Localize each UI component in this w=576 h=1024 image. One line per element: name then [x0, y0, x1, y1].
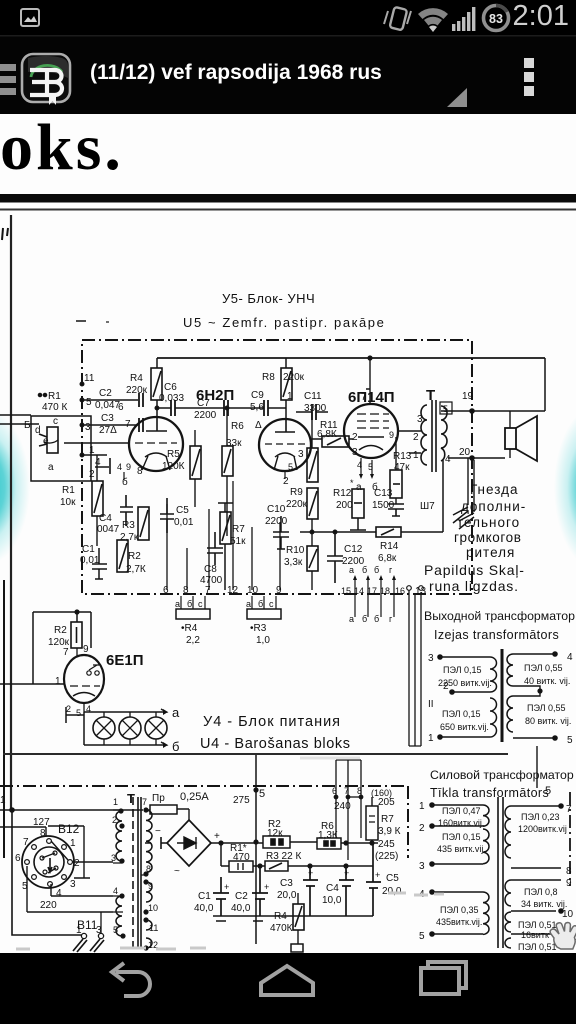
svg-text:1: 1	[113, 797, 118, 807]
svg-text:0047: 0047	[97, 524, 120, 535]
svg-text:б: б	[258, 599, 263, 609]
svg-text:2250 витк.vij.: 2250 витк.vij.	[438, 678, 492, 688]
svg-text:d: d	[35, 425, 41, 436]
svg-text:R9: R9	[290, 487, 303, 498]
svg-text:1: 1	[55, 676, 61, 687]
svg-text:2200: 2200	[194, 410, 217, 421]
svg-text:б: б	[374, 565, 379, 575]
svg-text:e: e	[43, 436, 49, 447]
svg-text:8: 8	[146, 864, 151, 874]
svg-text:435 витк.vij.: 435 витк.vij.	[437, 844, 486, 854]
svg-text:c: c	[53, 416, 58, 427]
svg-text:R7: R7	[381, 814, 394, 825]
svg-text:+: +	[264, 882, 269, 892]
svg-text:40,0: 40,0	[194, 903, 214, 914]
svg-text:С2: С2	[235, 891, 248, 902]
svg-text:3: 3	[111, 853, 116, 863]
svg-text:а: а	[175, 599, 180, 609]
svg-text:б: б	[122, 476, 128, 488]
svg-text:4: 4	[113, 886, 118, 896]
svg-text:27Δ: 27Δ	[99, 425, 117, 436]
svg-text:160витк.vij.: 160витк.vij.	[438, 818, 484, 828]
svg-text:C2: C2	[99, 388, 112, 399]
svg-text:6: 6	[163, 585, 169, 596]
svg-text:+: +	[308, 868, 313, 878]
svg-text:9: 9	[566, 878, 572, 889]
svg-text:3: 3	[85, 422, 91, 433]
svg-text:Δ: Δ	[255, 420, 262, 431]
svg-text:с: с	[269, 599, 274, 609]
svg-text:R12: R12	[333, 488, 352, 499]
svg-text:275: 275	[233, 795, 250, 806]
svg-text:10к: 10к	[60, 497, 76, 508]
svg-text:5: 5	[419, 931, 425, 942]
svg-text:1200витк.vij: 1200витк.vij	[518, 824, 567, 834]
svg-text:R3: R3	[122, 520, 135, 531]
svg-text:R2: R2	[128, 551, 141, 562]
svg-text:б: б	[187, 599, 192, 609]
svg-text:18: 18	[380, 586, 390, 596]
svg-text:R6: R6	[231, 421, 244, 432]
svg-text:с: с	[198, 599, 203, 609]
svg-text:4: 4	[117, 462, 122, 472]
svg-text:С4: С4	[99, 513, 112, 524]
svg-text:г: г	[389, 565, 393, 575]
svg-text:U4 - Barošanas bloks: U4 - Barošanas bloks	[200, 736, 351, 752]
svg-text:650 витк.vij.: 650 витк.vij.	[440, 722, 489, 732]
svg-text:R5: R5	[167, 449, 180, 460]
svg-text:R10: R10	[286, 545, 305, 556]
svg-text:+: +	[224, 882, 229, 892]
svg-text:runa ligzdas.: runa ligzdas.	[429, 578, 519, 594]
svg-text:*: *	[350, 478, 354, 488]
svg-text:5: 5	[259, 788, 265, 800]
svg-text:ПЭЛ 0,55: ПЭЛ 0,55	[527, 703, 566, 713]
svg-text:тельного: тельного	[457, 515, 520, 530]
svg-text:ПЭЛ 0,15: ПЭЛ 0,15	[442, 709, 481, 719]
svg-text:16витк: 16витк	[521, 930, 549, 940]
svg-text:U5 ~ Zemfr. pastipr. pакāpe: U5 ~ Zemfr. pastipr. pакāpe	[183, 315, 385, 330]
svg-text:8: 8	[183, 585, 189, 596]
svg-text:245: 245	[378, 839, 395, 850]
svg-text:220: 220	[40, 900, 57, 911]
svg-text:1: 1	[76, 925, 82, 936]
svg-text:Ш7: Ш7	[420, 501, 435, 512]
svg-text:7: 7	[125, 419, 131, 430]
svg-text:5: 5	[288, 462, 293, 472]
svg-text:Papildus Skaļ-: Papildus Skaļ-	[424, 562, 525, 578]
svg-text:а: а	[356, 482, 362, 493]
svg-text:б: б	[374, 614, 379, 624]
svg-text:С10: С10	[267, 504, 286, 515]
svg-text:9: 9	[83, 644, 89, 655]
svg-text:2: 2	[283, 476, 289, 487]
svg-text:20,0: 20,0	[277, 890, 297, 901]
svg-text:R8: R8	[262, 372, 275, 383]
svg-text:R14: R14	[380, 541, 399, 552]
svg-text:2: 2	[89, 469, 95, 480]
svg-text:ПЭЛ 0,51: ПЭЛ 0,51	[518, 942, 557, 952]
svg-text:11: 11	[149, 923, 158, 933]
svg-text:б: б	[362, 565, 367, 575]
svg-text:120К: 120К	[162, 461, 185, 472]
svg-text:(160): (160)	[371, 788, 392, 798]
svg-text:R4: R4	[130, 373, 143, 384]
svg-text:C3: C3	[101, 413, 114, 424]
svg-text:б: б	[362, 614, 367, 624]
svg-text:7: 7	[63, 647, 69, 658]
svg-text:0,01: 0,01	[174, 517, 194, 528]
svg-text:3: 3	[428, 653, 434, 664]
svg-text:5: 5	[545, 785, 551, 797]
svg-text:Т: Т	[426, 387, 435, 404]
svg-text:220к: 220к	[283, 372, 305, 383]
svg-text:80 витк. vij.: 80 витк. vij.	[525, 716, 571, 726]
svg-text:3: 3	[419, 861, 425, 872]
svg-text:10: 10	[148, 903, 158, 913]
svg-text:14: 14	[354, 586, 364, 596]
svg-text:1: 1	[70, 838, 76, 849]
svg-text:ПЭЛ 0,35: ПЭЛ 0,35	[440, 905, 479, 915]
svg-text:У4 - Блок питания: У4 - Блок питания	[203, 714, 341, 730]
svg-text:1: 1	[428, 733, 434, 744]
svg-text:0,25А: 0,25А	[180, 791, 209, 803]
svg-text:12: 12	[227, 585, 239, 596]
svg-text:1: 1	[0, 795, 6, 806]
svg-text:С12: С12	[344, 544, 363, 555]
svg-text:4: 4	[56, 888, 62, 899]
svg-text:40,0: 40,0	[231, 903, 251, 914]
svg-text:2: 2	[74, 858, 80, 869]
svg-text:8: 8	[137, 466, 143, 477]
svg-text:7: 7	[23, 837, 29, 848]
svg-text:а: а	[246, 599, 251, 609]
svg-text:R4: R4	[274, 911, 287, 922]
svg-text:Пр: Пр	[152, 793, 165, 804]
svg-text:−: −	[155, 826, 161, 837]
svg-text:3: 3	[298, 449, 304, 460]
svg-text:1: 1	[413, 450, 419, 461]
svg-text:ПЭЛ 0,15: ПЭЛ 0,15	[442, 832, 481, 842]
svg-text:С8: С8	[204, 564, 217, 575]
svg-text:Силовой трансформатор: Силовой трансформатор	[430, 768, 574, 782]
svg-text:20: 20	[459, 447, 471, 458]
svg-text:205: 205	[378, 797, 395, 808]
svg-text:15: 15	[341, 586, 351, 596]
svg-text:40 витк. vij.: 40 витк. vij.	[524, 676, 570, 686]
svg-text:2: 2	[66, 704, 71, 714]
svg-text:12к: 12к	[267, 828, 283, 839]
svg-text:С7: С7	[197, 398, 210, 409]
svg-text:470 К: 470 К	[42, 402, 67, 413]
svg-text:a: a	[48, 462, 54, 473]
svg-text:С13: С13	[374, 488, 393, 499]
svg-text:У5- Блок- УНЧ: У5- Блок- УНЧ	[222, 291, 315, 306]
svg-text:а: а	[172, 705, 180, 720]
svg-text:B12: B12	[58, 822, 80, 836]
svg-text:С11: С11	[304, 391, 322, 402]
svg-text:0,047: 0,047	[95, 400, 120, 411]
svg-text:5: 5	[443, 404, 448, 414]
svg-text:4700: 4700	[200, 575, 223, 586]
svg-text:Izejas transformātors: Izejas transformātors	[434, 628, 559, 642]
svg-text:Tīkla transformātors: Tīkla transformātors	[430, 786, 549, 800]
svg-text:17: 17	[367, 586, 377, 596]
svg-text:ПЭЛ 0,51: ПЭЛ 0,51	[518, 920, 557, 930]
svg-text:9: 9	[126, 462, 131, 472]
svg-text:С6: С6	[164, 382, 177, 393]
svg-text:R1: R1	[48, 391, 61, 402]
svg-text:ПЭЛ 0,23: ПЭЛ 0,23	[521, 812, 560, 822]
svg-text:дополни-: дополни-	[461, 499, 526, 514]
svg-text:ПЭЛ 0,47: ПЭЛ 0,47	[442, 806, 481, 816]
svg-text:6: 6	[118, 402, 124, 413]
svg-text:19: 19	[462, 391, 474, 402]
svg-text:127: 127	[33, 817, 50, 828]
svg-text:2,7к: 2,7к	[120, 532, 139, 543]
svg-text:16: 16	[395, 586, 405, 596]
svg-text:10,0: 10,0	[322, 895, 342, 906]
svg-text:7: 7	[361, 392, 367, 403]
svg-text:2200: 2200	[265, 516, 288, 527]
svg-text:5: 5	[86, 397, 92, 408]
svg-text:7: 7	[566, 804, 572, 815]
svg-text:2: 2	[352, 432, 358, 443]
svg-text:~: ~	[174, 866, 180, 877]
svg-text:Гнезда: Гнезда	[470, 482, 519, 497]
svg-text:1: 1	[287, 391, 293, 402]
svg-text:83: 83	[489, 12, 503, 26]
svg-text:г: г	[389, 614, 393, 624]
svg-text:10: 10	[247, 585, 259, 596]
svg-text:•R3: •R3	[250, 623, 267, 634]
svg-text:9: 9	[276, 585, 282, 596]
svg-text:220к: 220к	[126, 385, 148, 396]
svg-text:ПЭЛ 0,55: ПЭЛ 0,55	[524, 663, 563, 673]
svg-text:435витк.vij.: 435витк.vij.	[436, 917, 482, 927]
svg-text:•R4: •R4	[181, 623, 198, 634]
svg-text:2: 2	[413, 432, 419, 443]
svg-text:5: 5	[567, 735, 573, 746]
svg-text:С1: С1	[198, 891, 211, 902]
svg-text:220к: 220к	[286, 499, 308, 510]
svg-text:а: а	[349, 614, 354, 624]
svg-text:33к: 33к	[226, 438, 242, 449]
svg-text:(225): (225)	[375, 851, 398, 862]
svg-text:С9: С9	[251, 390, 264, 401]
svg-text:громкогов: громкогов	[454, 530, 522, 545]
svg-text:рителя: рителя	[466, 545, 515, 560]
svg-text:5: 5	[76, 708, 81, 718]
svg-text:С3: С3	[280, 878, 293, 889]
svg-text:+: +	[344, 868, 349, 878]
svg-text:7: 7	[142, 797, 147, 807]
svg-text:3,3к: 3,3к	[284, 557, 303, 568]
svg-text:8: 8	[566, 866, 572, 877]
svg-text:9: 9	[389, 430, 394, 440]
svg-text:4: 4	[567, 652, 573, 663]
svg-text:II: II	[428, 699, 434, 710]
svg-text:5,6: 5,6	[250, 402, 264, 413]
svg-text:6Е1П: 6Е1П	[106, 652, 143, 669]
svg-text:10: 10	[562, 909, 574, 920]
svg-text:+: +	[375, 870, 380, 880]
svg-text:3,9 К: 3,9 К	[378, 826, 401, 837]
svg-text:С4: С4	[326, 883, 339, 894]
svg-text:Б: Б	[24, 420, 31, 431]
svg-text:4: 4	[445, 454, 451, 465]
svg-text:2,7К: 2,7К	[126, 564, 146, 575]
svg-text:6,8к: 6,8к	[378, 553, 397, 564]
svg-text:3: 3	[70, 879, 76, 890]
svg-text:1: 1	[419, 801, 425, 812]
svg-text:R1: R1	[62, 485, 75, 496]
svg-text:С5: С5	[176, 505, 189, 516]
svg-text:С5: С5	[386, 873, 399, 884]
svg-text:ПЭЛ 0,8: ПЭЛ 0,8	[524, 887, 558, 897]
svg-text:R7: R7	[232, 524, 245, 535]
svg-text:1,3К: 1,3К	[318, 830, 338, 841]
svg-text:11: 11	[84, 373, 95, 384]
svg-text:6: 6	[15, 853, 21, 864]
svg-text:R2: R2	[54, 625, 67, 636]
svg-text:б: б	[172, 739, 179, 754]
svg-text:200: 200	[336, 500, 353, 511]
svg-text:ПЭЛ 0,15: ПЭЛ 0,15	[443, 665, 482, 675]
svg-text:470К: 470К	[270, 923, 293, 934]
svg-text:34 витк. vij.: 34 витк. vij.	[521, 899, 567, 909]
svg-text:а: а	[349, 565, 354, 575]
svg-text:2,2: 2,2	[186, 635, 200, 646]
svg-text:9: 9	[148, 881, 153, 891]
svg-text:+: +	[214, 831, 220, 842]
svg-text:Выходной трансформатор: Выходной трансформатор	[424, 609, 575, 623]
svg-text:7: 7	[205, 585, 211, 596]
svg-text:1,0: 1,0	[256, 635, 270, 646]
svg-text:2: 2	[419, 823, 425, 834]
svg-text:С1: С1	[82, 544, 95, 555]
svg-text:3: 3	[417, 414, 423, 425]
